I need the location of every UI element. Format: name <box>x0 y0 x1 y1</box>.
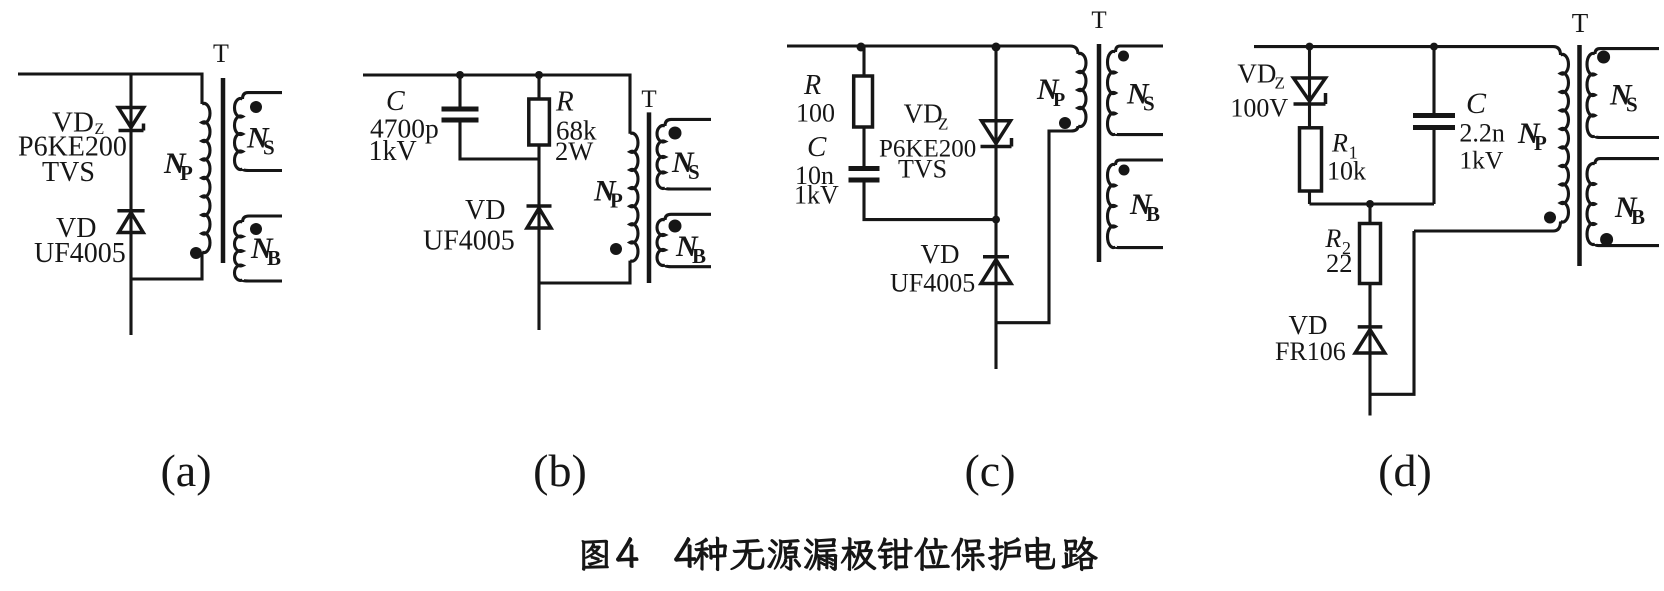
svg-text:TVS: TVS <box>898 155 947 184</box>
svg-text:B: B <box>1146 202 1160 226</box>
svg-text:P: P <box>180 161 193 185</box>
svg-text:R: R <box>803 70 821 101</box>
svg-text:C: C <box>1466 87 1487 120</box>
svg-text:VD: VD <box>904 98 943 128</box>
svg-text:R: R <box>1331 129 1348 158</box>
svg-text:T: T <box>1091 7 1106 34</box>
svg-text:1kV: 1kV <box>794 181 839 210</box>
svg-text:100V: 100V <box>1230 94 1288 123</box>
svg-text:T: T <box>641 86 656 113</box>
svg-text:2W: 2W <box>555 136 593 166</box>
svg-text:B: B <box>692 244 706 268</box>
svg-text:(d): (d) <box>1378 445 1432 496</box>
svg-text:1kV: 1kV <box>1459 146 1504 175</box>
svg-text:2.2n: 2.2n <box>1459 118 1505 147</box>
svg-text:UF4005: UF4005 <box>423 226 515 257</box>
svg-text:R: R <box>555 86 574 118</box>
svg-text:FR106: FR106 <box>1275 337 1346 366</box>
svg-text:T: T <box>1572 8 1589 38</box>
svg-text:(c): (c) <box>964 445 1015 496</box>
svg-text:T: T <box>213 39 229 68</box>
svg-text:UF4005: UF4005 <box>34 238 126 269</box>
svg-text:(a): (a) <box>160 445 211 496</box>
svg-text:S: S <box>1626 93 1638 117</box>
svg-text:S: S <box>263 136 275 160</box>
svg-text:100: 100 <box>796 99 835 128</box>
svg-text:C: C <box>807 131 827 163</box>
svg-text:S: S <box>1143 92 1155 116</box>
svg-text:VD: VD <box>1289 310 1328 340</box>
svg-text:VD: VD <box>465 195 505 226</box>
svg-text:P: P <box>1534 131 1547 155</box>
svg-text:VD: VD <box>1237 59 1276 89</box>
svg-text:TVS: TVS <box>42 157 95 188</box>
svg-text:VD: VD <box>921 239 960 269</box>
svg-text:10k: 10k <box>1327 157 1366 186</box>
svg-text:P: P <box>1053 89 1065 111</box>
svg-text:Z: Z <box>938 115 948 134</box>
svg-text:B: B <box>1631 205 1645 229</box>
svg-text:(b): (b) <box>533 445 587 496</box>
svg-text:S: S <box>688 160 700 184</box>
svg-text:1kV: 1kV <box>369 136 417 167</box>
svg-text:B: B <box>267 246 281 270</box>
svg-text:UF4005: UF4005 <box>890 269 975 298</box>
svg-text:22: 22 <box>1326 248 1353 278</box>
svg-text:Z: Z <box>1275 74 1285 93</box>
svg-text:P: P <box>610 189 623 213</box>
